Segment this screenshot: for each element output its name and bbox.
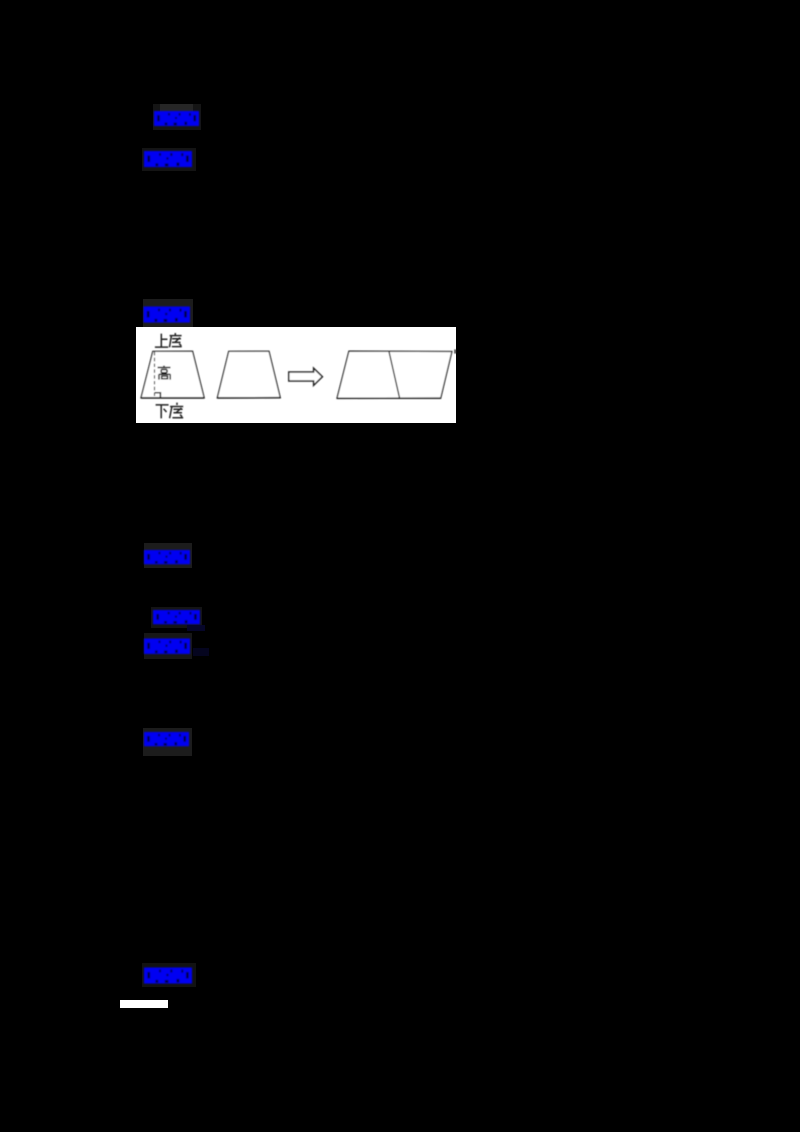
figure label: 下底 (bottom base) (156, 403, 184, 419)
底 (170, 403, 184, 419)
底 (170, 333, 182, 347)
footnote separator: white bar (120, 1000, 168, 1008)
jpeg halo block around label 4 (144, 543, 192, 568)
上 (155, 334, 168, 348)
figure: right-angle mark (155, 393, 161, 398)
blue label 7 : 【详解】 (144, 732, 189, 746)
jpeg halo block around label 8 (142, 963, 196, 987)
blue label 6 : 【分析】 (144, 639, 190, 654)
figure: parallelogram (two trapezoids joined) (337, 351, 452, 398)
blue label 4 : 【点睛】 (144, 550, 190, 564)
blue label 1 : 1.【答案】 (154, 111, 199, 126)
jpeg halo block around label 3 (143, 299, 193, 329)
figure: block arrow (289, 368, 323, 385)
blue label 3 : 【详解】 (144, 307, 190, 323)
faint jpeg navy smudge right of label 6 (193, 648, 209, 656)
figure label: 高 (height) (158, 366, 171, 380)
figure: small dark tick at right edge of panel (454, 349, 456, 353)
jpeg halo block around label 5 (151, 607, 202, 628)
jpeg halo block around label 2 (142, 148, 196, 171)
figure: left trapezoid (141, 351, 204, 398)
figure: left trapezoid thicker bottom edge (141, 397, 204, 399)
figure: middle trapezoid thicker bottom edge (217, 397, 280, 399)
下 (156, 405, 169, 419)
figure label: 上底 (top base) (155, 333, 182, 347)
jpeg halo block above label 1 (153, 104, 201, 130)
figure: middle trapezoid (217, 351, 280, 398)
jpeg halo block around label 6 (144, 633, 192, 659)
figure: dashed height line (154, 352, 156, 398)
jpeg halo block around label 7 (143, 728, 192, 756)
figure: divider leg inside parallelogram (389, 351, 400, 398)
faint jpeg navy smudge right of label 5 (187, 625, 205, 631)
blue label 8 : 【点睛】 (144, 968, 192, 984)
figure: parallelogram thicker bottom edge (337, 397, 441, 399)
figure panel: white box (136, 327, 456, 423)
blue label 2 : 【分析】 (144, 151, 192, 167)
blue label 5 : 2.【答案】 (153, 610, 200, 624)
